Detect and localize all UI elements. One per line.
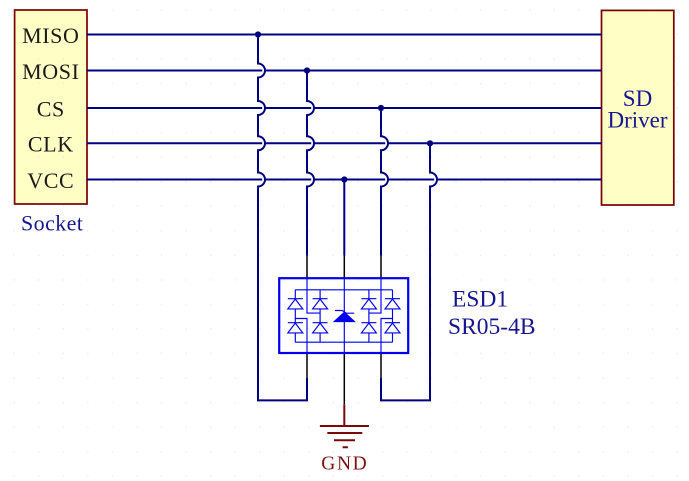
ESD1 steering diode top column 4: [385, 290, 400, 323]
svg-text:MOSI: MOSI: [22, 59, 79, 84]
ESD1 steering diode bottom column 2: [313, 323, 328, 343]
svg-text:MISO: MISO: [22, 23, 79, 48]
svg-text:Driver: Driver: [607, 108, 667, 133]
wire CS drop to ESD pin 3 (top): [381, 108, 388, 256]
ESD1 pin 3 (top): [380, 256, 382, 279]
wire CS net (horizontal): [87, 107, 602, 109]
junction on MOSI net: [304, 67, 310, 73]
junction on MISO net: [255, 31, 261, 37]
wire CLK net (horizontal): [87, 142, 602, 144]
ESD1 central TVS diode (filled): [334, 312, 355, 321]
ESD1 steering diode top column 3: [361, 290, 376, 323]
ESD1 steering diode bottom column 3: [361, 323, 376, 343]
ESD1 steering diode top column 1: [288, 290, 303, 323]
ESD1 internal pin 2 link: [343, 278, 345, 353]
ESD1 internal top rail: [295, 289, 392, 291]
wire MOSI net (horizontal): [87, 70, 602, 72]
svg-text:GND: GND: [321, 454, 368, 475]
svg-text:CS: CS: [37, 96, 65, 121]
wire VCC drop to ESD pin 2 (top): [343, 180, 345, 256]
ESD1 pin 1 (top): [306, 256, 308, 279]
svg-text:CLK: CLK: [28, 132, 74, 157]
junction on CS net: [378, 105, 384, 111]
wire MISO net (horizontal): [87, 34, 602, 36]
wire CLK drop to ESD pin 3: [381, 143, 437, 400]
junction on CLK net: [427, 140, 433, 146]
ESD1 steering diode bottom column 4: [385, 323, 400, 343]
ESD1 pin 4 (bottom): [380, 353, 382, 378]
ground symbol: [320, 404, 369, 447]
wire MOSI drop to ESD pin 1 (top): [307, 71, 314, 256]
svg-text:Socket: Socket: [21, 211, 83, 236]
junction on VCC net: [341, 176, 347, 182]
ESD1 internal bottom rail: [295, 341, 392, 343]
wire MISO drop to ESD pin 1: [258, 35, 307, 401]
connector J1 Socket (SD card socket): [15, 10, 87, 204]
ESD suppressor ESD1 SR05-4B body: [279, 278, 408, 353]
ESD1 pin 5 GND (bottom): [343, 353, 345, 404]
svg-text:VCC: VCC: [27, 168, 74, 193]
svg-text:SR05-4B: SR05-4B: [448, 314, 536, 340]
ESD1 internal pin 3 link: [369, 278, 393, 353]
wire VCC net (horizontal): [87, 179, 602, 181]
ESD1 internal pin 1 link: [295, 278, 320, 353]
ESD1 pin 6 (bottom): [306, 353, 308, 378]
svg-text:ESD1: ESD1: [452, 286, 508, 312]
ESD1 pin 2 (top): [343, 256, 345, 279]
part U2 SD Driver: [602, 10, 674, 205]
ESD1 steering diode top column 2: [313, 290, 328, 323]
ESD1 steering diode bottom column 1: [288, 323, 303, 343]
